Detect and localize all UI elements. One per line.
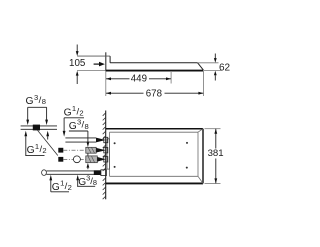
fitting C wall arrow — [96, 148, 106, 153]
wall line (top view) — [105, 52, 107, 71]
screw dot right bottom — [186, 167, 188, 169]
fitting D body — [86, 156, 98, 163]
dimension 105 — [76, 45, 78, 52]
arm top edge — [110, 62, 198, 64]
bracket G3/8 top-left — [28, 106, 47, 108]
fitting D wall socket — [104, 157, 108, 162]
bracket G1/2 upper-mid — [64, 117, 84, 119]
fitting C wall socket — [104, 148, 108, 153]
dimension 678 extension line right — [202, 71, 204, 96]
wall line (bottom view) — [105, 111, 107, 200]
pipe B wall socket — [104, 137, 108, 142]
svg-text:678: 678 — [146, 88, 162, 99]
fitting C nut — [58, 148, 63, 153]
fitting D nut — [58, 157, 63, 162]
corner diagonal bottom right — [198, 176, 203, 183]
dimension 381 extension lines — [205, 128, 221, 130]
dimension 381 — [215, 129, 217, 149]
G3/8 bottom up arrow — [76, 175, 79, 180]
dimension 449 — [106, 78, 130, 80]
mid stem between fittings — [87, 153, 89, 156]
fitting D oval — [73, 156, 80, 163]
head plate outer rectangle (bottom view) — [106, 128, 203, 130]
head plate inner rectangle — [110, 132, 199, 176]
mounting plate edge — [107, 139, 110, 169]
svg-text:105: 105 — [69, 58, 86, 69]
chamfer at head tip — [198, 63, 204, 70]
up arrows under pipe A — [24, 131, 27, 137]
wall hatching — [103, 113, 106, 199]
screw dot left top — [114, 142, 116, 144]
svg-text:62: 62 — [219, 63, 231, 74]
extension line bottom (105 dim) — [77, 70, 106, 72]
up arrow under fitting D — [87, 163, 90, 168]
dimension 62 extension lines — [198, 62, 219, 64]
corner diagonal top right — [198, 129, 203, 133]
pipe B wall arrow — [96, 138, 106, 143]
leader arrow down right — [46, 107, 48, 120]
diagonal leader — [38, 130, 58, 155]
dimension 449 extension line right — [170, 72, 172, 84]
fitting D centreline — [63, 158, 85, 160]
pipe E wall socket — [101, 170, 107, 176]
leader arrow down left — [27, 107, 29, 120]
pipe A (reducer fitting) — [21, 125, 57, 127]
inlet flow arrow — [94, 63, 99, 65]
screw dot left bottom — [114, 166, 116, 168]
flange step — [109, 56, 111, 63]
pipe E — [46, 170, 94, 172]
bracket G3/8 mid — [69, 130, 88, 132]
pipe E nut — [94, 170, 101, 175]
fitting C body — [86, 147, 96, 153]
dimension 678 — [106, 92, 144, 94]
extension line top (105 dim) / flange top — [77, 55, 110, 57]
fitting D wall arrow — [97, 157, 106, 162]
svg-text:381: 381 — [208, 148, 224, 159]
screw dot right top — [186, 142, 188, 144]
pipe A union nut — [33, 125, 40, 131]
fitting C centreline — [63, 149, 85, 151]
G1/2 bottom up arrow — [49, 175, 52, 181]
svg-text:449: 449 — [131, 73, 147, 84]
pipe E open end — [42, 170, 47, 176]
pipe B — [65, 137, 96, 139]
dimension 62 — [214, 54, 216, 59]
spray face bottom edge — [106, 70, 204, 72]
